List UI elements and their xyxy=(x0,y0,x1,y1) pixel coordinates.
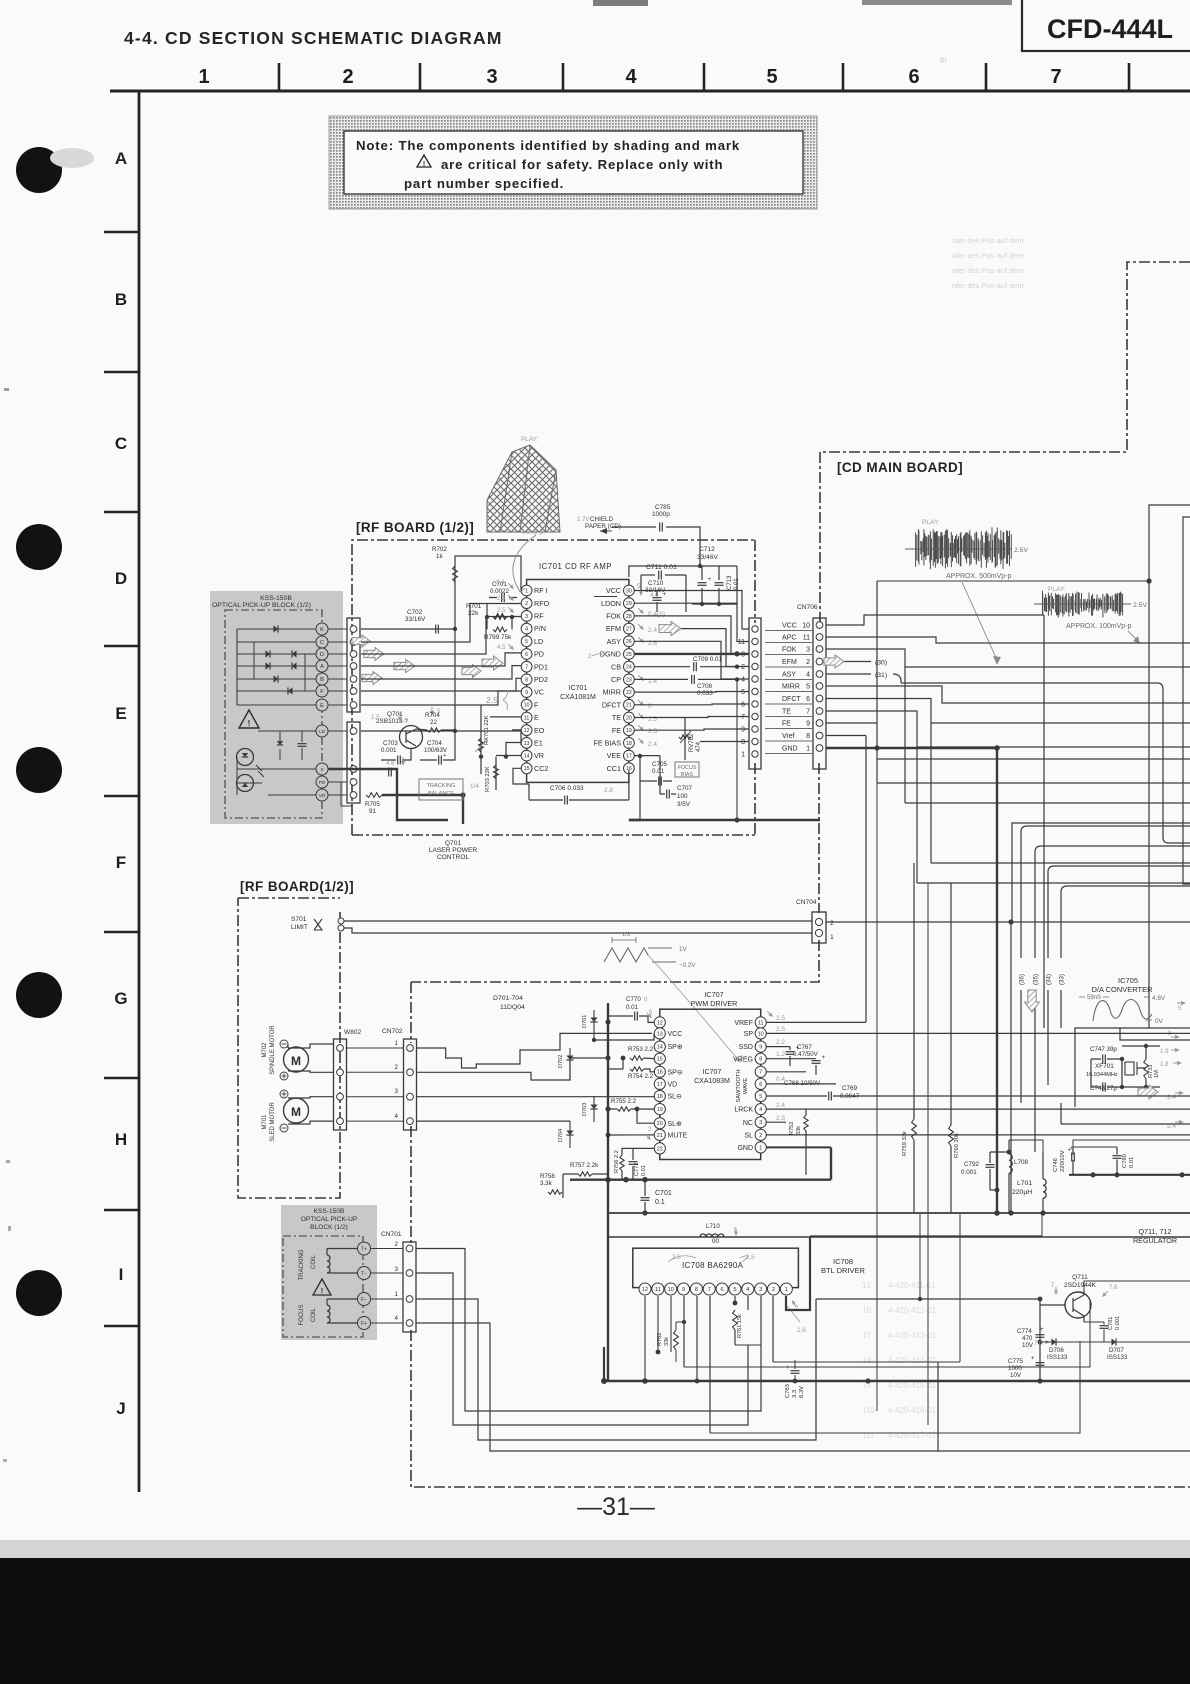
svg-text:10V: 10V xyxy=(1010,1372,1022,1379)
wires S701 limit to CN704 xyxy=(341,920,812,922)
svg-text:4-420-413-01: 4-420-413-01 xyxy=(888,1331,937,1340)
svg-text:2.5: 2.5 xyxy=(672,1254,681,1261)
svg-text:R760 30k: R760 30k xyxy=(954,1133,960,1158)
svg-text:F: F xyxy=(116,853,126,872)
svg-text:11: 11 xyxy=(738,639,745,646)
svg-text:10: 10 xyxy=(802,623,810,630)
svg-text:C: C xyxy=(115,434,127,453)
svg-text:L710: L710 xyxy=(706,1223,720,1230)
svg-text:BTL DRIVER: BTL DRIVER xyxy=(821,1266,865,1275)
svg-text:COIL: COIL xyxy=(311,1254,317,1269)
thick wire DGND xyxy=(634,653,749,655)
svg-text:D707: D707 xyxy=(1109,1347,1124,1354)
svg-text:8: 8 xyxy=(695,1287,698,1293)
svg-text:VCC: VCC xyxy=(606,586,621,595)
svg-text:5: 5 xyxy=(1178,1005,1182,1012)
wire top of caps xyxy=(1073,1140,1190,1147)
resistor R799 xyxy=(487,617,512,629)
svg-text:21: 21 xyxy=(626,703,632,709)
svg-text:R752: R752 xyxy=(789,1122,795,1135)
svg-text:R762: R762 xyxy=(657,1333,663,1346)
svg-text:B: B xyxy=(115,290,127,309)
svg-text:LDON: LDON xyxy=(601,599,621,608)
svg-text:1.2: 1.2 xyxy=(776,1051,785,1058)
svg-text:C712: C712 xyxy=(699,546,715,553)
svg-text:F−: F− xyxy=(361,1297,367,1303)
pointer arrow 100mV xyxy=(1128,631,1138,641)
pointer arrow 500mV xyxy=(962,582,997,660)
wires W802 to CN702 xyxy=(347,1047,404,1049)
resistor R705 xyxy=(366,793,382,798)
svg-text:8: 8 xyxy=(806,733,810,740)
svg-text:E: E xyxy=(320,703,324,709)
IC708 pins 1-12 xyxy=(639,1283,651,1295)
svg-text:ISS133: ISS133 xyxy=(1047,1354,1068,1361)
wires 36 35 34 33 xyxy=(1021,826,1190,958)
svg-text:6.3V: 6.3V xyxy=(799,1386,805,1398)
svg-text:1.2Vp-p: 1.2Vp-p xyxy=(522,530,544,536)
svg-text:470: 470 xyxy=(1022,1335,1033,1342)
svg-text:4-420-412-01: 4-420-412-01 xyxy=(888,1306,937,1315)
svg-text:474: 474 xyxy=(696,741,702,752)
svg-text:4: 4 xyxy=(395,1315,399,1322)
svg-text:XF701: XF701 xyxy=(1095,1063,1114,1070)
svg-text:2.5V: 2.5V xyxy=(1014,547,1028,554)
svg-text:2.5: 2.5 xyxy=(776,1015,785,1022)
svg-text:0.4(5): 0.4(5) xyxy=(648,611,665,618)
wires regulator bottom xyxy=(864,1380,866,1382)
svg-text:2.5V: 2.5V xyxy=(1133,602,1147,609)
svg-text:VREF: VREF xyxy=(734,1020,753,1027)
svg-text:2: 2 xyxy=(806,659,810,666)
svg-text:R701: R701 xyxy=(466,603,482,610)
svg-text:VCC: VCC xyxy=(782,623,797,630)
svg-text:1.5: 1.5 xyxy=(371,714,380,721)
svg-text:2.6: 2.6 xyxy=(797,1327,806,1334)
optical block 2 terminals xyxy=(358,1242,371,1255)
svg-text:13: 13 xyxy=(524,741,530,747)
svg-text:4-420-416-01: 4-420-416-01 xyxy=(888,1406,937,1415)
svg-text:18: 18 xyxy=(657,1094,663,1100)
svg-text:7: 7 xyxy=(525,665,528,671)
svg-text:EO: EO xyxy=(534,726,545,735)
svg-text:7: 7 xyxy=(1051,1282,1055,1289)
warning triangle optical 1 xyxy=(239,710,259,728)
svg-text:(34): (34) xyxy=(1046,974,1053,985)
svg-text:19: 19 xyxy=(626,728,632,734)
safety note box xyxy=(329,116,817,209)
svg-text:[RF BOARD(1/2)]: [RF BOARD(1/2)] xyxy=(240,879,354,894)
svg-text:3.3k: 3.3k xyxy=(540,1180,553,1187)
svg-text:OPTICAL PICK-UP BLOCK (1/2): OPTICAL PICK-UP BLOCK (1/2) xyxy=(212,602,311,609)
wire harness right mid xyxy=(905,667,1190,803)
svg-text:16: 16 xyxy=(862,1306,871,1315)
svg-text:Q701: Q701 xyxy=(387,711,403,718)
svg-text:CC1: CC1 xyxy=(607,764,621,773)
svg-text:VR: VR xyxy=(319,793,326,798)
svg-text:33k: 33k xyxy=(796,1126,802,1135)
svg-text:COIL: COIL xyxy=(311,1307,317,1322)
svg-text:100: 100 xyxy=(677,793,688,800)
svg-text:G: G xyxy=(114,989,127,1008)
wires IC701 bottom region xyxy=(600,770,629,800)
svg-text:9: 9 xyxy=(741,727,745,734)
sawtooth waveform sketch xyxy=(604,948,648,962)
svg-text:CXA1081M: CXA1081M xyxy=(560,694,596,701)
svg-text:[CD MAIN BOARD]: [CD MAIN BOARD] xyxy=(837,460,963,475)
top border rule xyxy=(110,90,1190,93)
svg-text:F: F xyxy=(320,689,324,695)
svg-text:LRCK: LRCK xyxy=(734,1107,753,1114)
svg-text:FE: FE xyxy=(782,721,791,728)
svg-text:PD: PD xyxy=(534,650,544,659)
focus coil xyxy=(327,1305,330,1323)
thick wire GND net xyxy=(826,747,997,749)
potentiometer RV702 xyxy=(684,718,686,761)
svg-text:GND: GND xyxy=(737,1145,753,1152)
svg-text:11DQ04: 11DQ04 xyxy=(500,1004,525,1011)
svg-text:C770: C770 xyxy=(626,996,641,1003)
svg-text:16: 16 xyxy=(657,1070,663,1076)
connector strip 7pin xyxy=(347,618,360,712)
svg-text:0.0022: 0.0022 xyxy=(490,588,509,595)
svg-text:17: 17 xyxy=(626,753,632,759)
svg-text:(35): (35) xyxy=(1033,974,1040,985)
svg-text:PWM DRIVER: PWM DRIVER xyxy=(691,999,738,1008)
svg-text:PLAY:: PLAY: xyxy=(521,436,539,443)
svg-text:IC707: IC707 xyxy=(703,1069,722,1076)
svg-text:LIMIT: LIMIT xyxy=(291,924,308,931)
svg-text:17: 17 xyxy=(862,1331,871,1340)
optical block 1 terminals LD S PD VR xyxy=(316,725,328,737)
svg-text:CXA1083M: CXA1083M xyxy=(694,1078,730,1085)
svg-text:14: 14 xyxy=(657,1045,663,1051)
svg-text:C707: C707 xyxy=(677,785,693,792)
svg-text:SPINDLE MOTOR: SPINDLE MOTOR xyxy=(270,1025,276,1075)
svg-text:2SB1013-?: 2SB1013-? xyxy=(376,718,408,725)
svg-text:FOCUS: FOCUS xyxy=(678,765,697,771)
svg-text:rder des Pos auf dem: rder des Pos auf dem xyxy=(952,281,1024,290)
svg-text:2: 2 xyxy=(772,1287,775,1293)
tracking balance box xyxy=(419,779,463,800)
svg-text:C711 0.01: C711 0.01 xyxy=(646,564,677,571)
wires connector A to IC701 xyxy=(361,628,455,630)
connector CN701 xyxy=(403,1242,416,1332)
svg-text:10: 10 xyxy=(524,703,530,709)
svg-text:91: 91 xyxy=(369,808,376,815)
svg-text:2SD1944K: 2SD1944K xyxy=(1064,1282,1096,1289)
svg-text:4-4. CD SECTION SCHEMATIC DIA: 4-4. CD SECTION SCHEMATIC DIAGRAM xyxy=(124,28,503,48)
svg-text:0.001: 0.001 xyxy=(381,747,397,754)
svg-text:1M: 1M xyxy=(1154,1070,1160,1078)
svg-text:4: 4 xyxy=(806,672,810,679)
svg-text:9: 9 xyxy=(759,1045,762,1051)
svg-text:D704: D704 xyxy=(558,1129,564,1142)
svg-text:FOCUS: FOCUS xyxy=(299,1305,305,1326)
svg-text:2.5: 2.5 xyxy=(746,1254,755,1261)
svg-text:R756 2.2: R756 2.2 xyxy=(614,1150,620,1173)
IC708 pin wires xyxy=(644,1296,646,1381)
svg-text:1: 1 xyxy=(525,588,528,594)
optical pick-up block 2 shading xyxy=(281,1205,377,1340)
svg-text:12: 12 xyxy=(642,1287,648,1293)
svg-text:2: 2 xyxy=(648,1126,652,1133)
svg-text:15: 15 xyxy=(862,1281,871,1290)
svg-text:1: 1 xyxy=(830,934,834,941)
svg-text:F+: F+ xyxy=(361,1321,367,1327)
svg-text:IC701 CD RF AMP: IC701 CD RF AMP xyxy=(539,562,612,571)
svg-text:SL: SL xyxy=(744,1133,753,1140)
svg-text:5: 5 xyxy=(766,66,777,88)
svg-text:Q711: Q711 xyxy=(1072,1274,1088,1281)
svg-text:33k: 33k xyxy=(664,1337,670,1346)
svg-text:S701: S701 xyxy=(291,916,307,923)
svg-text:4.8V: 4.8V xyxy=(1152,995,1166,1002)
svg-text:BIAS: BIAS xyxy=(681,772,694,778)
svg-text:C704: C704 xyxy=(427,740,442,747)
svg-text:17: 17 xyxy=(657,1082,663,1088)
svg-text:−0.2V: −0.2V xyxy=(679,962,696,969)
resistor R702 xyxy=(455,556,521,629)
svg-text:C775: C775 xyxy=(1008,1358,1023,1365)
svg-text:2.5: 2.5 xyxy=(776,1026,785,1033)
svg-text:2.4: 2.4 xyxy=(1167,1094,1176,1101)
transistor Q701 xyxy=(400,726,423,749)
svg-text:4: 4 xyxy=(395,1113,399,1120)
svg-text:1: 1 xyxy=(198,66,209,88)
signal flow arrows optical xyxy=(352,635,370,647)
svg-text:TE: TE xyxy=(782,709,791,716)
svg-text:2: 2 xyxy=(395,1241,399,1248)
op-amp IC701 CXA1081M body xyxy=(527,580,629,783)
svg-text:2.8: 2.8 xyxy=(604,787,613,794)
svg-text:BALANCE: BALANCE xyxy=(428,791,454,797)
svg-text:R757 2.2k: R757 2.2k xyxy=(570,1162,599,1169)
svg-text:2.5: 2.5 xyxy=(648,728,657,735)
svg-text:2.2: 2.2 xyxy=(776,1039,785,1046)
wire VCC node xyxy=(629,566,692,577)
svg-text:13: 13 xyxy=(657,1031,663,1037)
laser diode and monitor xyxy=(237,749,254,766)
thick bus analog xyxy=(1069,1174,1190,1176)
wire laser drive xyxy=(361,629,521,731)
svg-text:SP⊖: SP⊖ xyxy=(668,1069,683,1076)
svg-text:2.4: 2.4 xyxy=(496,579,505,586)
svg-text:18: 18 xyxy=(626,741,632,747)
svg-text:VEE: VEE xyxy=(607,751,622,760)
svg-text:M702: M702 xyxy=(262,1042,268,1058)
svg-text:+: + xyxy=(1040,1327,1044,1333)
left border rule xyxy=(138,91,141,1492)
IC701 right pins 16-30 xyxy=(624,585,635,596)
svg-text:CHIELD: CHIELD xyxy=(590,516,614,523)
svg-text:C781: C781 xyxy=(1108,1317,1114,1330)
svg-text:PD: PD xyxy=(319,780,326,785)
svg-text:22: 22 xyxy=(430,719,437,726)
svg-text:Note: The components identifie: Note: The components identified by shadi… xyxy=(356,138,740,153)
svg-text:LD: LD xyxy=(534,637,543,646)
svg-text:S: S xyxy=(320,767,323,772)
svg-text:FOK: FOK xyxy=(782,647,797,654)
svg-text:R759 33k: R759 33k xyxy=(902,1131,908,1156)
svg-text:D701: D701 xyxy=(582,1015,588,1028)
svg-text:3: 3 xyxy=(395,1266,399,1273)
svg-text:A: A xyxy=(320,664,324,670)
svg-text:2: 2 xyxy=(395,1064,399,1071)
wires Q711 xyxy=(816,1299,1040,1381)
svg-text:P/N: P/N xyxy=(534,624,546,633)
svg-text:4: 4 xyxy=(741,677,745,684)
svg-text:C746: C746 xyxy=(1053,1158,1059,1172)
IC704 block outline partial xyxy=(1149,505,1190,1028)
svg-text:R755 2.2: R755 2.2 xyxy=(611,1098,637,1105)
svg-text:M: M xyxy=(291,1105,301,1119)
svg-text:9: 9 xyxy=(682,1287,685,1293)
svg-text:IC708 BA6290A: IC708 BA6290A xyxy=(682,1261,744,1270)
svg-text:DFCT: DFCT xyxy=(602,700,622,709)
misc verticals bottom xyxy=(1089,1298,1091,1300)
svg-text:LASER POWER: LASER POWER xyxy=(429,847,478,854)
connector CN702 xyxy=(404,1039,417,1130)
svg-text:11: 11 xyxy=(655,1287,661,1293)
wires to IC701 lower pins xyxy=(328,768,361,770)
svg-text:R753 2.2: R753 2.2 xyxy=(628,1046,654,1053)
svg-text:59nS: 59nS xyxy=(1087,995,1101,1001)
RF board 1/2 lower dash-dot outline xyxy=(238,898,340,1198)
svg-text:27: 27 xyxy=(626,626,632,632)
optical pick-up block 1 shading xyxy=(210,591,343,824)
svg-text:CC2: CC2 xyxy=(534,764,548,773)
svg-text:4.6: 4.6 xyxy=(386,760,395,767)
svg-text:KSS-150B: KSS-150B xyxy=(260,595,292,602)
svg-text:CFD-444L: CFD-444L xyxy=(1047,14,1173,44)
svg-text:SLED MOTOR: SLED MOTOR xyxy=(270,1102,276,1142)
svg-text:C747 39p: C747 39p xyxy=(1090,1046,1117,1053)
svg-text:th: th xyxy=(940,56,947,65)
svg-text:0.01: 0.01 xyxy=(641,1165,647,1176)
svg-text:1/4: 1/4 xyxy=(470,783,479,790)
IC705 box partial xyxy=(1075,1028,1190,1107)
svg-text:7: 7 xyxy=(806,709,810,716)
svg-text:R799 75k: R799 75k xyxy=(484,634,512,641)
svg-text:18: 18 xyxy=(862,1356,871,1365)
svg-text:12: 12 xyxy=(524,728,530,734)
long wires lower xyxy=(608,1212,1190,1214)
svg-text:28: 28 xyxy=(626,614,632,620)
svg-text:A: A xyxy=(115,149,127,168)
svg-text:F: F xyxy=(534,700,539,709)
svg-text:2.4: 2.4 xyxy=(648,627,657,634)
svg-text:OPTICAL PICK-UP: OPTICAL PICK-UP xyxy=(301,1216,358,1223)
svg-text:0.47/50V: 0.47/50V xyxy=(793,1051,819,1058)
svg-text:[RF BOARD (1/2)]: [RF BOARD (1/2)] xyxy=(356,520,474,535)
svg-text:C767: C767 xyxy=(797,1044,812,1051)
svg-text:RV702: RV702 xyxy=(689,733,695,752)
svg-text:3/5V: 3/5V xyxy=(677,801,691,808)
wires CN702 staircase xyxy=(417,1033,653,1068)
svg-text:8: 8 xyxy=(525,677,528,683)
svg-text:7: 7 xyxy=(1050,66,1061,88)
svg-text:20: 20 xyxy=(657,1121,663,1127)
svg-text:—31—: —31— xyxy=(577,1493,655,1521)
waveform play 100mVp-p xyxy=(1043,591,1123,618)
svg-text:5: 5 xyxy=(759,1094,762,1100)
svg-text:26: 26 xyxy=(626,639,632,645)
svg-text:2.5: 2.5 xyxy=(486,695,498,705)
svg-text:L701: L701 xyxy=(1017,1180,1032,1187)
svg-text:CN704: CN704 xyxy=(796,899,817,906)
svg-text:+: + xyxy=(796,1046,800,1052)
wire harness CN706 to right xyxy=(826,615,1044,625)
svg-text:SP: SP xyxy=(744,1031,754,1038)
svg-text:3: 3 xyxy=(395,1088,399,1095)
svg-text:M701: M701 xyxy=(262,1114,268,1130)
svg-text:4-420-415-01: 4-420-415-01 xyxy=(888,1381,937,1390)
svg-text:!: ! xyxy=(423,161,425,168)
motor M702 spindle xyxy=(284,1047,309,1072)
svg-text:15: 15 xyxy=(524,766,530,772)
IC701 left pins 1-15 xyxy=(521,585,532,596)
svg-text:19: 19 xyxy=(657,1107,663,1113)
svg-text:9: 9 xyxy=(525,690,528,696)
svg-text:10: 10 xyxy=(758,1031,764,1037)
svg-text:D: D xyxy=(320,652,324,658)
svg-text:0.1: 0.1 xyxy=(655,1199,665,1206)
svg-text:10: 10 xyxy=(668,1287,674,1293)
svg-text:D: D xyxy=(115,569,127,588)
svg-text:EFM: EFM xyxy=(782,659,797,666)
svg-text:2.5: 2.5 xyxy=(776,1115,785,1122)
svg-text:4.5: 4.5 xyxy=(497,644,506,651)
svg-text:4: 4 xyxy=(746,1287,749,1293)
svg-text:CN706: CN706 xyxy=(797,604,818,611)
svg-text:CONTROL: CONTROL xyxy=(437,854,470,861)
svg-text:6: 6 xyxy=(806,696,810,703)
svg-text:1: 1 xyxy=(395,1291,399,1298)
motor M701 sled xyxy=(284,1098,309,1123)
svg-text:Vref: Vref xyxy=(782,733,795,740)
svg-text:0: 0 xyxy=(644,996,648,1003)
svg-text:!: ! xyxy=(321,1286,324,1295)
svg-text:2: 2 xyxy=(741,664,745,671)
svg-text:D702: D702 xyxy=(558,1055,564,1068)
arrow EFM xyxy=(659,622,681,636)
svg-text:FE BIAS: FE BIAS xyxy=(593,739,621,748)
svg-text:(36): (36) xyxy=(1019,974,1026,985)
svg-text:Q711, 712: Q711, 712 xyxy=(1138,1227,1171,1236)
svg-text:R704: R704 xyxy=(425,712,440,719)
svg-text:2: 2 xyxy=(342,66,353,88)
svg-text:3: 3 xyxy=(486,66,497,88)
svg-text:3: 3 xyxy=(525,614,528,620)
svg-text:24: 24 xyxy=(626,665,632,671)
svg-text:4: 4 xyxy=(625,66,637,88)
svg-text:E: E xyxy=(534,713,539,722)
svg-text:L708: L708 xyxy=(1014,1159,1029,1166)
warning triangle optical 2 xyxy=(313,1279,331,1295)
svg-text:R761 15k: R761 15k xyxy=(737,1314,743,1338)
svg-text:C710: C710 xyxy=(648,580,664,587)
svg-text:D701-704: D701-704 xyxy=(493,995,523,1002)
svg-text:11: 11 xyxy=(803,635,810,642)
svg-text:KSS-150B: KSS-150B xyxy=(314,1208,345,1215)
svg-text:6: 6 xyxy=(741,702,745,709)
bottom nest wires xyxy=(461,1410,463,1412)
svg-text:R754 2.2: R754 2.2 xyxy=(628,1073,654,1080)
svg-text:5: 5 xyxy=(741,689,745,696)
svg-text:3: 3 xyxy=(759,1287,762,1293)
svg-text:2: 2 xyxy=(830,920,834,927)
